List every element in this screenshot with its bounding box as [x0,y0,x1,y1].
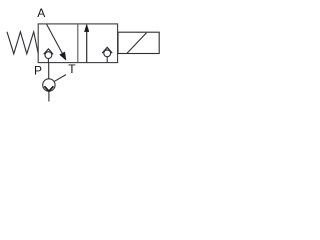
blocked port P (left square): ball check [45,52,52,59]
blocked port T (right square): ball check [104,50,111,57]
port line P [48,63,50,79]
spring (return) [7,32,38,54]
valve body outline (two-position envelope) [38,24,117,63]
flow path arrow A to T (left square) [47,24,63,54]
check valve on P line [43,79,55,91]
spring tick on check valve [54,75,66,82]
flow path arrow P to A (right square) [86,31,88,63]
svg-text:T: T [68,62,76,76]
position divider [77,24,79,63]
solenoid actuator [118,32,159,53]
svg-text:A: A [37,6,45,20]
svg-text:P: P [34,64,42,78]
